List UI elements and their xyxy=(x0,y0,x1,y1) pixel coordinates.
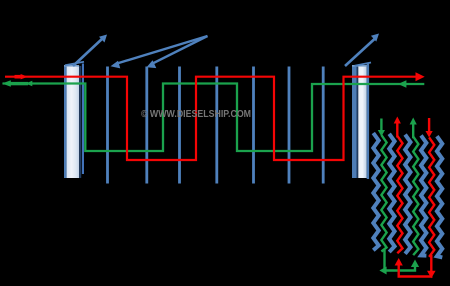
green outlet arrowhead left inner xyxy=(8,81,32,86)
corrugated plate zigzag 3 xyxy=(405,135,410,254)
left end plate 3D edge bar xyxy=(82,64,84,175)
right end plate xyxy=(352,63,371,179)
hot fluid (red) flow path xyxy=(5,77,422,160)
green channel zigzag 1 xyxy=(381,135,386,252)
heat transfer plate P1 xyxy=(106,67,109,184)
pointer arrow A4 from right end plate xyxy=(345,34,379,67)
pointer arrow A1 from left end plate xyxy=(73,35,107,67)
red outlet arrow (up) inset top xyxy=(394,117,401,138)
pointer arrow A3 to plate P2 xyxy=(147,36,208,68)
corrugated plate zigzag 2 xyxy=(389,134,394,252)
heat transfer plate P3 xyxy=(178,67,181,184)
red inlet arrowhead left xyxy=(15,74,28,79)
cold fluid (green) flow path xyxy=(3,84,425,152)
right end plate 3D edge bar xyxy=(367,64,369,180)
heat transfer plate P5 xyxy=(252,67,255,184)
heat transfer plate P6 xyxy=(288,67,291,184)
green outlet arrow (up) inset top xyxy=(410,118,417,139)
red channel zigzag 4 xyxy=(429,137,434,257)
red channel zigzag 2 xyxy=(397,136,402,254)
pointer arrow A2 to plate P1 xyxy=(111,36,208,68)
green inlet arrowhead right xyxy=(398,80,406,87)
red bottom connector xyxy=(395,255,436,278)
green outlet arrowhead left outer xyxy=(2,80,11,86)
left end plate xyxy=(64,62,84,178)
heat transfer plate P7 xyxy=(322,67,325,184)
svg-text:© WWW.DIESELSHIP.COM: © WWW.DIESELSHIP.COM xyxy=(141,109,251,120)
left end plate dark edge xyxy=(79,66,81,178)
heat transfer plate P2 xyxy=(145,67,148,184)
heat transfer plate P4 xyxy=(215,67,218,184)
green channel zigzag 3 xyxy=(413,137,418,256)
green bottom connector xyxy=(379,250,419,275)
green inlet arrow (down) inset top xyxy=(378,119,385,137)
red outlet arrowhead right xyxy=(416,72,425,81)
corrugated plate zigzag 4 xyxy=(421,135,426,255)
corrugated plate zigzag 1 xyxy=(373,133,378,250)
corrugated plate zigzag 5 xyxy=(437,136,442,257)
red inlet arrow (down) inset top xyxy=(426,118,433,138)
